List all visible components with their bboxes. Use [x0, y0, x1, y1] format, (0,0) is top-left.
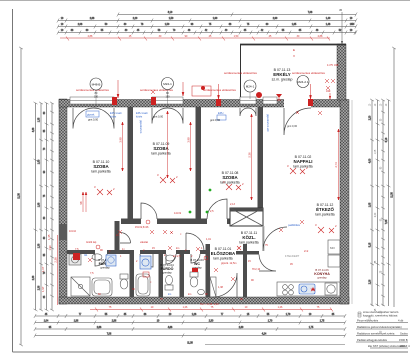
- svg-text:gmt 0,00: gmt 0,00: [287, 124, 298, 128]
- svg-text:1,07: 1,07: [41, 266, 45, 272]
- svg-text:kötés: kötés: [136, 115, 143, 119]
- svg-text:ELŐSZOBA: ELŐSZOBA: [211, 251, 236, 256]
- svg-text:2,36: 2,36: [33, 275, 35, 280]
- svg-text:greslap: greslap: [162, 271, 172, 275]
- svg-text:km: km: [176, 247, 179, 250]
- svg-text:öbl.: öbl.: [84, 254, 88, 257]
- svg-text:lam.parketta: lam.parketta: [315, 213, 334, 217]
- svg-text:45: 45: [339, 8, 343, 12]
- svg-text:MO: MO: [330, 246, 335, 250]
- svg-text:1,50: 1,50: [165, 24, 170, 26]
- svg-text:1,86: 1,86: [74, 320, 79, 322]
- svg-text:km 2,5: km 2,5: [173, 255, 181, 258]
- svg-text:km: km: [168, 293, 171, 296]
- svg-text:1,86: 1,86: [370, 315, 372, 320]
- svg-text:2,86: 2,86: [97, 327, 102, 329]
- svg-text:sz.m. greslap: sz.m. greslap: [272, 78, 293, 82]
- svg-text:km: km: [188, 293, 191, 296]
- svg-text:3.98: 3.98: [186, 137, 190, 143]
- svg-text:150: 150: [166, 96, 171, 99]
- svg-text:4,24: 4,24: [262, 333, 267, 335]
- svg-text:2,88: 2,88: [318, 35, 323, 38]
- svg-text:7,06: 7,06: [107, 333, 112, 335]
- svg-text:150: 150: [94, 96, 99, 99]
- svg-text:Pince-előkészítés: Pince-előkészítés: [357, 319, 379, 323]
- svg-text:Radiátoros szerelvények széria: Radiátoros szerelvények széria: [357, 332, 395, 336]
- svg-text:1,75: 1,75: [320, 320, 325, 322]
- svg-text:greslap: greslap: [317, 276, 327, 280]
- svg-text:NAPPALI: NAPPALI: [294, 159, 313, 164]
- svg-text:11,30: 11,30: [392, 191, 394, 197]
- svg-text:sérülésmentes előkészítés: sérülésmentes előkészítés: [203, 88, 237, 92]
- svg-text:Szoba: Szoba: [400, 332, 408, 336]
- svg-text:2,88: 2,88: [88, 35, 93, 38]
- svg-text:Padlási athagyás-lefedés: Padlási athagyás-lefedés: [357, 338, 388, 342]
- svg-text:kötés: kötés: [110, 115, 117, 119]
- svg-text:km: km: [116, 234, 119, 237]
- svg-text:M24-1: M24-1: [163, 82, 172, 86]
- svg-text:1,97: 1,97: [41, 286, 45, 292]
- svg-text:1,50: 1,50: [234, 35, 239, 38]
- svg-text:7,5: 7,5: [90, 272, 94, 275]
- svg-text:HRSZ 4: HRSZ 4: [400, 344, 410, 348]
- svg-text:4 db: 4 db: [398, 319, 404, 323]
- svg-text:lam.parketta: lam.parketta: [213, 257, 232, 261]
- svg-text:gmt 0,00: gmt 0,00: [210, 118, 221, 122]
- svg-text:1,90: 1,90: [213, 18, 218, 20]
- svg-text:1,35: 1,35: [47, 234, 51, 240]
- svg-text:M48-B: M48-B: [92, 83, 101, 87]
- svg-text:KÖZL.: KÖZL.: [242, 235, 255, 240]
- svg-text:3.98: 3.98: [118, 137, 122, 143]
- svg-text:SZOBA: SZOBA: [93, 164, 109, 169]
- svg-text:4,00: 4,00: [370, 158, 372, 163]
- svg-text:1,60: 1,60: [39, 159, 41, 164]
- svg-text:ERKÉLY: ERKÉLY: [273, 72, 290, 77]
- svg-text:SZOBA: SZOBA: [222, 175, 238, 180]
- svg-text:7,08: 7,08: [308, 12, 313, 14]
- svg-text:gipszkarton elő: gipszkarton elő: [266, 114, 270, 132]
- svg-text:5.36: 5.36: [247, 152, 251, 158]
- svg-text:sérülésmentes előkészítés: sérülésmentes előkészítés: [292, 71, 326, 75]
- svg-text:gipszkarton: gipszkarton: [139, 120, 143, 134]
- svg-text:gipszk.: gipszk.: [87, 113, 95, 117]
- svg-text:1500 B: 1500 B: [399, 338, 408, 342]
- svg-text:2,13: 2,13: [230, 203, 235, 206]
- svg-text:2,86: 2,86: [112, 320, 117, 322]
- svg-text:Radiátoros gázos kivitelezés(t: Radiátoros gázos kivitelezés(tartalék): [357, 325, 402, 329]
- svg-text:4,86: 4,86: [168, 327, 173, 329]
- svg-text:lam.parketta: lam.parketta: [293, 165, 312, 169]
- svg-text:2,90: 2,90: [273, 18, 278, 20]
- svg-text:2,20: 2,20: [370, 115, 372, 120]
- svg-text:1,26: 1,26: [278, 306, 283, 309]
- svg-text:7,5: 7,5: [75, 248, 79, 251]
- svg-text:padlófűtés: padlófűtés: [288, 223, 301, 227]
- svg-text:1,40: 1,40: [326, 18, 331, 20]
- svg-text:V: V: [293, 54, 295, 58]
- svg-text:1,04: 1,04: [44, 320, 49, 322]
- svg-text:11,30: 11,30: [19, 192, 21, 198]
- svg-text:2,30: 2,30: [239, 327, 244, 329]
- svg-text:5,16: 5,16: [386, 137, 388, 142]
- svg-text:1,38: 1,38: [218, 286, 223, 289]
- svg-text:1,70: 1,70: [268, 320, 273, 322]
- svg-text:lam.parketta: lam.parketta: [239, 241, 258, 245]
- svg-text:1,90: 1,90: [48, 245, 52, 251]
- svg-text:ÉTKEZŐ: ÉTKEZŐ: [316, 207, 334, 212]
- svg-text:2×2: 2×2: [304, 250, 309, 253]
- svg-text:2,36: 2,36: [54, 257, 58, 263]
- svg-text:1,26: 1,26: [183, 306, 188, 309]
- svg-text:2,88: 2,88: [90, 18, 95, 20]
- svg-text:1,75: 1,75: [309, 327, 314, 329]
- svg-text:M24-1: M24-1: [246, 85, 255, 89]
- svg-text:sérülésmentes előkészítés: sérülésmentes előkészítés: [224, 71, 258, 75]
- svg-text:2,08: 2,08: [78, 24, 83, 26]
- svg-text:EPH csatl.: EPH csatl.: [136, 111, 148, 115]
- svg-text:4,66: 4,66: [33, 127, 35, 132]
- svg-text:gmt 0,00: gmt 0,00: [153, 115, 164, 119]
- svg-text:1,01: 1,01: [206, 238, 211, 241]
- svg-text:15×19,5×26: 15×19,5×26: [135, 226, 149, 229]
- svg-text:1,38: 1,38: [39, 243, 41, 248]
- svg-text:1×75: 1×75: [327, 63, 333, 67]
- svg-text:1,98: 1,98: [39, 202, 41, 207]
- svg-text:Tsz = -0,15 -0,10: Tsz = -0,15 -0,10: [200, 303, 219, 306]
- svg-text:2,5: 2,5: [210, 210, 214, 213]
- svg-text:1,26: 1,26: [192, 314, 197, 316]
- svg-text:H=2,10: H=2,10: [252, 268, 261, 271]
- svg-text:1,05: 1,05: [375, 149, 377, 154]
- svg-text:lam.parketta: lam.parketta: [91, 170, 110, 174]
- svg-text:14×19: 14×19: [174, 212, 182, 215]
- svg-text:2,20: 2,20: [375, 212, 377, 217]
- svg-text:5,15: 5,15: [370, 242, 372, 247]
- svg-text:11,30: 11,30: [187, 343, 193, 345]
- svg-text:öntött lap: öntött lap: [86, 241, 97, 244]
- svg-text:1,70: 1,70: [286, 314, 291, 316]
- svg-text:gipszk. 12,5m: gipszk. 12,5m: [221, 262, 236, 265]
- svg-text:vakolat: vakolat: [140, 241, 148, 244]
- svg-text:EPH: EPH: [218, 111, 223, 115]
- svg-text:F.TELIKERT: F.TELIKERT: [285, 254, 300, 258]
- svg-text:349: 349: [334, 63, 339, 67]
- svg-text:2,74: 2,74: [334, 162, 338, 168]
- svg-text:EPH csatl.: EPH csatl.: [110, 111, 122, 115]
- svg-text:1,35: 1,35: [39, 117, 41, 122]
- svg-text:M24-2.1: M24-2.1: [297, 80, 308, 84]
- svg-text:7,06: 7,06: [386, 219, 388, 224]
- svg-text:2,30: 2,30: [209, 320, 214, 322]
- svg-text:1,05: 1,05: [370, 202, 372, 207]
- svg-text:2,26: 2,26: [370, 279, 372, 284]
- svg-text:gmt 0,00: gmt 0,00: [88, 118, 99, 122]
- svg-text:E: E: [293, 48, 295, 52]
- svg-text:1,85: 1,85: [292, 24, 297, 26]
- svg-text:SZOBA: SZOBA: [153, 146, 169, 151]
- svg-text:10×10: 10×10: [69, 230, 77, 233]
- svg-text:lam.parketta: lam.parketta: [151, 152, 170, 156]
- svg-text:2,20: 2,20: [133, 18, 138, 20]
- svg-text:1,48: 1,48: [326, 24, 331, 26]
- svg-text:3,10: 3,10: [168, 12, 173, 14]
- svg-text:1,50: 1,50: [169, 18, 174, 20]
